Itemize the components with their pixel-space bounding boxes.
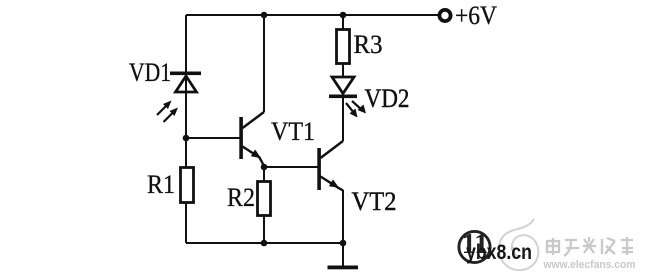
node junction VT1 emitter / R2 / VT2 base xyxy=(261,164,268,171)
wire VT1 emitter to R2 node xyxy=(263,164,265,182)
svg-text:VT1: VT1 xyxy=(271,117,315,146)
LED VD2 xyxy=(329,77,366,118)
wire bottom rail xyxy=(186,242,343,244)
svg-text:+6V: +6V xyxy=(455,1,497,30)
wire VT2 base xyxy=(264,166,318,168)
transistor VT1 xyxy=(239,112,264,166)
svg-text:R2: R2 xyxy=(227,183,255,212)
wire left vertical rail xyxy=(185,15,187,243)
wire ground stem xyxy=(342,243,344,266)
svg-text:VD1: VD1 xyxy=(129,58,171,87)
node junction VT2 emitter / ground rail xyxy=(340,240,347,247)
transistor VT2 xyxy=(317,141,343,191)
wire R3 top xyxy=(342,15,344,30)
wire VT2 emitter vertical xyxy=(342,190,344,243)
resistor R3 xyxy=(337,30,350,64)
wire VT2 collector vertical xyxy=(342,97,344,141)
watermark elecfans swirl logo xyxy=(499,219,538,270)
svg-text:VT2: VT2 xyxy=(352,187,397,216)
svg-text:R3: R3 xyxy=(354,30,383,59)
node junction R3 top / +6V rail xyxy=(340,12,347,19)
svg-text:VD2: VD2 xyxy=(365,84,410,113)
resistor R1 xyxy=(181,168,194,203)
watermark circled 11 stamp xyxy=(459,229,490,263)
svg-text:ybx8.cn: ybx8.cn xyxy=(466,241,532,264)
node junction R2 bottom / ground rail xyxy=(261,240,268,247)
wire R2 bottom xyxy=(263,215,265,243)
ground xyxy=(328,266,359,270)
wire top rail xyxy=(186,14,438,16)
node junction VD1 anode / VT1 base xyxy=(183,135,190,142)
wire VT1 base xyxy=(186,137,240,139)
watermark CJK brand glyphs xyxy=(547,237,633,256)
svg-text:www.elecfans.com: www.elecfans.com xyxy=(543,259,636,271)
photodiode VD1 xyxy=(157,72,201,123)
wire VT1 collector vertical xyxy=(263,15,265,112)
resistor R2 xyxy=(258,182,271,216)
wire R3 to VD2 xyxy=(342,63,344,77)
wire VD1 through xyxy=(185,75,187,95)
node junction VT1 collector / +6V rail xyxy=(261,12,268,19)
+6V supply terminal xyxy=(439,10,450,21)
svg-text:R1: R1 xyxy=(147,170,175,199)
